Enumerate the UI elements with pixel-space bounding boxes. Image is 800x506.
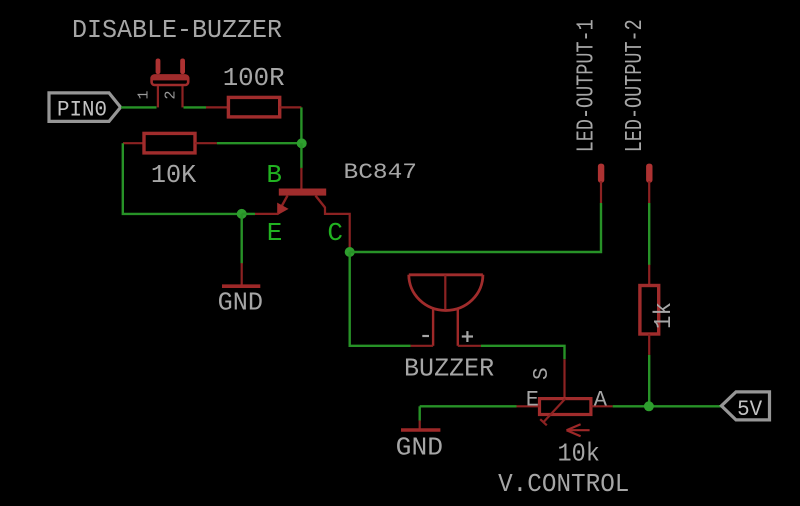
wire GND2 to pot E <box>420 405 517 407</box>
svg-text:B: B <box>266 160 282 190</box>
wire LED-OUTPUT-2 to R 1k <box>648 203 650 265</box>
svg-text:C: C <box>327 218 343 248</box>
svg-text:GND: GND <box>218 287 263 317</box>
wire emitter node to GND1 <box>240 214 242 264</box>
wire JP1 pin2 to R 100R <box>184 106 207 108</box>
wire PIN0 to JP1 pin1 <box>121 106 157 108</box>
net flag 5V <box>721 392 769 422</box>
buzzer minus label <box>422 335 429 337</box>
resistor 1k <box>640 265 678 355</box>
svg-text:2: 2 <box>163 90 180 99</box>
junction base node <box>297 138 307 148</box>
svg-text:BUZZER: BUZZER <box>404 354 494 384</box>
wire emitter node to Q1 emitter pin <box>242 213 255 215</box>
jumper JP1 <box>152 59 189 108</box>
svg-text:E: E <box>267 218 283 248</box>
svg-text:LED-OUTPUT-1: LED-OUTPUT-1 <box>574 19 601 152</box>
wire GND2 drop <box>419 406 421 421</box>
buzzer plus label <box>462 331 473 342</box>
resistor 100R <box>206 63 301 117</box>
ground GND1 <box>218 263 263 317</box>
wire buzzer plus to pot wiper <box>481 346 565 360</box>
pin LED-OUTPUT-1 <box>598 164 604 203</box>
svg-text:DISABLE-BUZZER: DISABLE-BUZZER <box>72 15 282 45</box>
svg-text:A: A <box>594 388 608 413</box>
svg-text:S: S <box>531 367 554 380</box>
pin LED-OUTPUT-2 <box>646 164 652 203</box>
wire 100R down to base node <box>300 107 302 143</box>
junction emitter node <box>237 209 247 219</box>
junction 5V node <box>644 401 654 411</box>
svg-text:E: E <box>526 388 539 413</box>
svg-text:V.CONTROL: V.CONTROL <box>498 469 629 499</box>
svg-text:10K: 10K <box>151 160 197 190</box>
wire base node down to Q1 base pin <box>300 143 302 168</box>
resistor 10K <box>123 133 217 190</box>
svg-text:BC847: BC847 <box>344 160 418 185</box>
svg-text:1k: 1k <box>651 302 678 329</box>
svg-text:GND: GND <box>396 433 443 463</box>
wire 1k to 5V node <box>648 355 650 406</box>
wire 10K left loop to emitter node <box>123 143 242 214</box>
net flag PIN0 <box>49 93 121 122</box>
wire 10K to base node <box>217 142 302 144</box>
wire collector node down to buzzer <box>350 252 411 346</box>
svg-text:100R: 100R <box>223 63 285 93</box>
junction collector node <box>345 247 355 257</box>
buzzer SG1 <box>409 275 483 346</box>
svg-text:1: 1 <box>136 90 153 99</box>
svg-text:PIN0: PIN0 <box>57 97 107 122</box>
svg-text:10k: 10k <box>558 439 600 469</box>
potentiometer V.CONTROL 10k <box>517 359 613 436</box>
ground GND2 <box>396 420 443 462</box>
wire pot A to 5V <box>613 405 722 407</box>
svg-text:5V: 5V <box>737 397 763 422</box>
wire collector node to LED-OUTPUT-1 <box>350 203 601 252</box>
svg-text:LED-OUTPUT-2: LED-OUTPUT-2 <box>622 19 649 152</box>
transistor Q1 BC847 <box>255 168 350 252</box>
